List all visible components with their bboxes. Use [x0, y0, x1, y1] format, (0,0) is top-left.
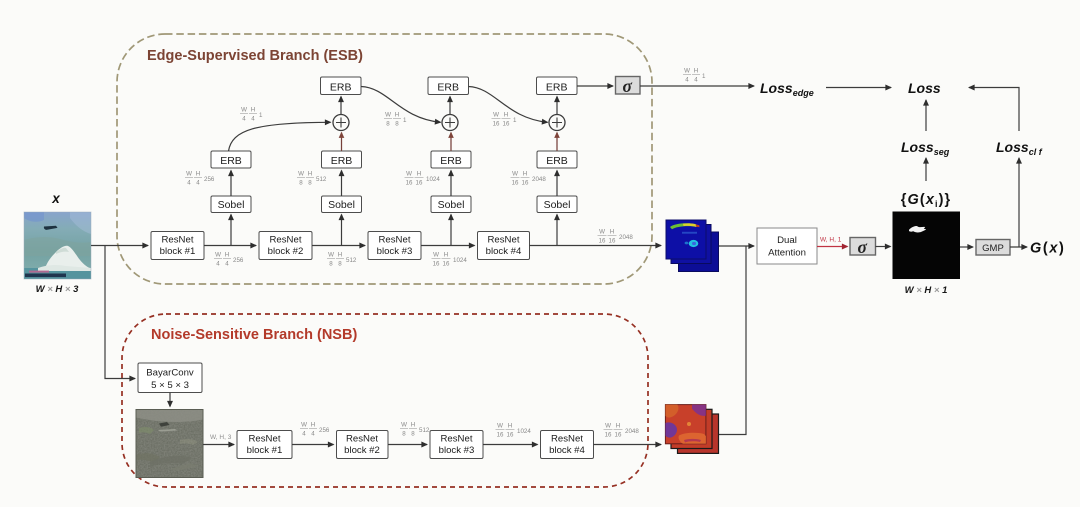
NSB container dashed box [122, 314, 648, 487]
svg-text:W: W [599, 229, 605, 236]
svg-text:block #1: block #1 [247, 445, 283, 456]
svg-text:W: W [215, 252, 221, 259]
svg-text:x: x [51, 191, 60, 206]
G(x_i) set label [901, 192, 952, 209]
G(x) label [1030, 241, 1065, 257]
svg-text:Edge-Supervised Branch (ESB): Edge-Supervised Branch (ESB) [147, 48, 363, 64]
svg-text:ERB: ERB [220, 155, 242, 167]
svg-text:ERB: ERB [330, 82, 352, 94]
wire junction col4 up to Sobel4 [556, 215, 558, 246]
svg-text:4: 4 [694, 77, 698, 84]
svg-text:1: 1 [513, 117, 517, 124]
wire junction col1 up to Sobel1 [230, 215, 232, 246]
dim label below main line col3 W/16 H/16 1024 [432, 252, 468, 268]
wire ResNet2 to ResNet3 [312, 245, 365, 247]
svg-text:block #2: block #2 [344, 445, 380, 456]
svg-text:H: H [338, 252, 342, 259]
svg-text:Dual: Dual [777, 235, 797, 246]
wire adder3 up to top ERB3 [556, 97, 558, 115]
Loss_edge label [760, 80, 814, 98]
svg-text:16: 16 [609, 238, 616, 245]
dim label NSB W/8 H/8 512 [400, 422, 430, 438]
noise image [136, 410, 203, 478]
wire mask to GMP [960, 246, 973, 248]
svg-text:8: 8 [411, 431, 415, 438]
svg-text:8: 8 [299, 180, 303, 187]
svg-text:ERB: ERB [546, 82, 568, 94]
svg-text:2048: 2048 [619, 234, 633, 241]
dim label col3 W/16 H/16 1024 [405, 171, 441, 187]
svg-text:W: W [385, 112, 391, 119]
svg-text:W: W [493, 112, 499, 119]
svg-text:block #4: block #4 [549, 445, 585, 456]
wire Sobel1 to ERB1 [230, 171, 232, 197]
wire ResNet4 to blue feature stack [530, 245, 662, 247]
dim label above line after ResNet4 W/16 H/16 2048 [598, 229, 634, 245]
ERB top #1 [321, 77, 362, 95]
svg-text:BayarConv: BayarConv [146, 368, 194, 379]
svg-text:256: 256 [233, 257, 244, 264]
plane in photo [44, 226, 58, 230]
svg-text:4: 4 [196, 180, 200, 187]
svg-text:5 × 5 × 3: 5 × 5 × 3 [151, 380, 189, 391]
svg-text:256: 256 [319, 427, 330, 434]
svg-text:block #4: block #4 [486, 246, 522, 257]
wire noise image to NSB ResNet1 [203, 444, 234, 446]
svg-text:4: 4 [251, 116, 255, 123]
svg-text:W: W [301, 422, 307, 429]
svg-text:H: H [694, 68, 698, 75]
svg-text:Sobel: Sobel [438, 199, 465, 211]
wire sigma1 to Loss_edge [640, 85, 754, 87]
wire input to ResNet block 1 [91, 245, 148, 247]
sigma box 2 [850, 237, 876, 257]
svg-text:4: 4 [242, 116, 246, 123]
svg-text:16: 16 [406, 180, 413, 187]
wire junction col3 up to Sobel3 [450, 215, 452, 246]
ResNet block #1 (NSB) [237, 431, 292, 459]
wire adder2 up to top ERB2 [449, 97, 451, 115]
svg-text:1: 1 [259, 112, 263, 119]
wire Sobel2 to ERB2 [341, 171, 343, 197]
ResNet block #3 (ESB) [368, 232, 421, 260]
dim label NSB W/16 H/16 2048 [604, 423, 640, 439]
svg-text:8: 8 [402, 431, 406, 438]
svg-text:block #3: block #3 [377, 246, 413, 257]
wire junction col2 up to Sobel2 [341, 215, 343, 246]
svg-text:H: H [308, 171, 312, 178]
ResNet block #2 (ESB) [259, 232, 312, 260]
svg-text:Losscl f: Losscl f [996, 139, 1043, 157]
svg-text:H: H [251, 107, 255, 114]
curve label 3 W/16 H/16 1 [492, 112, 518, 128]
GMP box [976, 240, 1010, 256]
svg-text:4: 4 [311, 431, 315, 438]
red dim label W, H, 1 [820, 237, 842, 244]
svg-text:512: 512 [316, 176, 327, 183]
svg-text:W × H × 1: W × H × 1 [905, 285, 948, 296]
wire Sobel3 to ERB3 [450, 171, 452, 197]
svg-text:16: 16 [605, 432, 612, 439]
wire red ERB3 up to adder2 [450, 133, 452, 152]
svg-text:W: W [433, 252, 439, 259]
svg-text:Sobel: Sobel [544, 199, 571, 211]
svg-text:G(x): G(x) [1030, 241, 1065, 257]
svg-text:8: 8 [386, 121, 390, 128]
svg-text:H: H [444, 252, 448, 259]
Loss_seg label [901, 139, 950, 157]
wire sigma2 to mask [876, 246, 891, 248]
svg-text:4: 4 [685, 77, 689, 84]
svg-text:H: H [311, 422, 315, 429]
svg-text:4: 4 [187, 180, 191, 187]
wire branch down to NSB [105, 246, 135, 379]
ERB top #3 [537, 77, 578, 95]
svg-text:ResNet: ResNet [270, 235, 302, 246]
svg-text:16: 16 [507, 432, 514, 439]
adder circle 3 [549, 115, 565, 131]
ERB #3 lower [431, 151, 471, 168]
Sobel #1 [211, 196, 251, 213]
svg-text:16: 16 [416, 180, 423, 187]
svg-text:W, H, 1: W, H, 1 [820, 237, 842, 244]
wire top ERB3 to sigma1 [577, 85, 613, 87]
svg-text:4: 4 [225, 261, 229, 268]
svg-text:8: 8 [395, 121, 399, 128]
svg-text:Sobel: Sobel [328, 199, 355, 211]
svg-text:W × H × 3: W × H × 3 [36, 284, 80, 295]
dim label col1 W/4 H/4 256 [185, 171, 215, 187]
svg-text:4: 4 [302, 431, 306, 438]
wire ResNet1 to ResNet2 [204, 245, 256, 247]
svg-text:H: H [610, 229, 614, 236]
dim label below main line col1 W/4 H/4 256 [214, 252, 244, 268]
ERB #1 lower [211, 151, 251, 168]
dim label col2 W/8 H/8 512 [297, 171, 327, 187]
svg-text:H: H [395, 112, 399, 119]
wire red ERB4 up to adder3 [556, 133, 558, 152]
wire G(x) junction up to Loss_clf [1018, 158, 1020, 247]
svg-text:16: 16 [522, 180, 529, 187]
svg-text:H: H [616, 423, 620, 430]
svg-text:W: W [401, 422, 407, 429]
svg-text:ResNet: ResNet [441, 434, 473, 445]
svg-text:H: H [504, 112, 508, 119]
dim label col4 W/16 H/16 2048 [511, 171, 547, 187]
adder circle 2 [442, 115, 458, 131]
svg-text:16: 16 [512, 180, 519, 187]
svg-text:Attention: Attention [768, 248, 806, 259]
svg-text:ERB: ERB [440, 155, 462, 167]
ResNet block #2 (NSB) [337, 431, 389, 459]
predicted mask image (black) [893, 212, 961, 280]
mask size label W x H x 1 [905, 285, 948, 296]
dim label after sigma1 W/4 H/4 1 [683, 68, 706, 84]
svg-text:16: 16 [493, 121, 500, 128]
dim label W, H, 3 [210, 434, 232, 441]
ESB title [147, 48, 363, 64]
svg-text:Loss: Loss [908, 80, 941, 96]
NSB title [151, 327, 357, 343]
svg-text:8: 8 [308, 180, 312, 187]
wire BayarConv down to noise image [169, 393, 171, 407]
svg-text:H: H [523, 171, 527, 178]
Loss label [908, 80, 941, 96]
svg-text:ERB: ERB [546, 155, 568, 167]
svg-text:W: W [406, 171, 412, 178]
svg-text:2048: 2048 [625, 428, 639, 435]
wire Loss_clf up and into Loss [969, 88, 1019, 132]
wire NSB ResNet2 to ResNet3 [388, 444, 427, 446]
svg-text:1024: 1024 [426, 176, 440, 183]
wire GMP to G(x) [1010, 246, 1027, 248]
svg-text:block #1: block #1 [160, 246, 196, 257]
svg-text:Sobel: Sobel [218, 199, 245, 211]
svg-text:W, H, 3: W, H, 3 [210, 434, 232, 441]
svg-text:{G(xi)}: {G(xi)} [901, 192, 952, 209]
ResNet block #4 (ESB) [478, 232, 530, 260]
sigma box 1 [616, 76, 641, 96]
svg-text:256: 256 [204, 176, 215, 183]
wire Loss_seg up to Loss [925, 100, 927, 131]
svg-text:H: H [411, 422, 415, 429]
svg-text:1: 1 [403, 117, 407, 124]
wire NSB ResNet1 to ResNet2 [292, 444, 334, 446]
ResNet block #1 (ESB) [151, 232, 204, 260]
curved wire top ERB2 to adder3 [469, 87, 548, 123]
svg-text:H: H [508, 423, 512, 430]
svg-text:W: W [186, 171, 192, 178]
wire red ERB2 up to adder1 [341, 133, 343, 152]
adder circle 1 [333, 115, 349, 131]
svg-text:H: H [225, 252, 229, 259]
svg-text:W: W [605, 423, 611, 430]
input image size label W x H x 3 [36, 284, 80, 295]
blue feature stack (ESB output) [666, 220, 719, 272]
node x label [51, 191, 60, 206]
ERB #2 lower [322, 151, 362, 168]
svg-text:16: 16 [599, 238, 606, 245]
wire Sobel4 to ERB4 [556, 171, 558, 197]
svg-text:1: 1 [702, 73, 706, 80]
svg-text:H: H [196, 171, 200, 178]
svg-text:ResNet: ResNet [249, 434, 281, 445]
Sobel #2 [322, 196, 362, 213]
svg-text:16: 16 [503, 121, 510, 128]
svg-text:16: 16 [443, 261, 450, 268]
svg-text:2048: 2048 [532, 176, 546, 183]
ESB container dashed box [117, 34, 652, 284]
svg-text:W: W [684, 68, 690, 75]
svg-text:16: 16 [497, 432, 504, 439]
wire adder1 up to top ERB1 [340, 97, 342, 115]
wire NSB ResNet4 to red stack [594, 444, 662, 446]
svg-text:W: W [497, 423, 503, 430]
Sobel #3 [431, 196, 471, 213]
svg-text:16: 16 [433, 261, 440, 268]
ERB top #2 [428, 77, 469, 95]
svg-text:ResNet: ResNet [488, 235, 520, 246]
svg-text:Lossseg: Lossseg [901, 139, 950, 157]
Loss_clf label [996, 139, 1043, 157]
svg-text:GMP: GMP [982, 243, 1004, 254]
svg-text:W: W [328, 252, 334, 259]
iceberg [44, 246, 91, 277]
svg-text:ResNet: ResNet [346, 434, 378, 445]
ERB #4 lower [537, 151, 577, 168]
Sobel #4 [537, 196, 577, 213]
svg-text:1024: 1024 [453, 257, 467, 264]
svg-text:512: 512 [419, 427, 430, 434]
dim label below main line col2 W/8 H/8 512 [327, 252, 357, 268]
wire Loss_edge to Loss [826, 87, 891, 89]
red wire Dual Attention to sigma2 [817, 246, 848, 248]
svg-text:block #2: block #2 [268, 246, 304, 257]
input image x [24, 212, 91, 279]
sea strip [24, 268, 91, 279]
wire NSB ResNet3 to ResNet4 [483, 444, 538, 446]
wire G(xi) up to Loss_seg [925, 158, 927, 181]
svg-text:Lossedge: Lossedge [760, 80, 814, 98]
wire ResNet3 to ResNet4 [421, 245, 475, 247]
svg-text:ERB: ERB [437, 82, 459, 94]
svg-text:σ: σ [622, 76, 632, 96]
curved wire top ERB1 to adder2 [361, 87, 441, 123]
svg-text:512: 512 [346, 257, 357, 264]
svg-text:ResNet: ResNet [551, 434, 583, 445]
curve label 2 W/8 H/8 1 [384, 112, 407, 128]
svg-text:W: W [241, 107, 247, 114]
svg-text:8: 8 [338, 261, 342, 268]
svg-text:block #3: block #3 [439, 445, 475, 456]
BayarConv box [138, 363, 202, 393]
dim label NSB W/4 H/4 256 [300, 422, 330, 438]
wire blue stack to Dual Attention [719, 245, 754, 247]
svg-text:16: 16 [615, 432, 622, 439]
dim label NSB W/16 H/16 1024 [496, 423, 532, 439]
svg-text:ResNet: ResNet [162, 235, 194, 246]
svg-text:8: 8 [329, 261, 333, 268]
curve label 1 W/4 H/4 1 [240, 107, 263, 123]
ResNet block #3 (NSB) [430, 431, 483, 459]
svg-text:σ: σ [857, 237, 867, 257]
svg-text:Noise-Sensitive Branch (NSB): Noise-Sensitive Branch (NSB) [151, 327, 357, 343]
svg-text:W: W [512, 171, 518, 178]
curved wire ERB1 lower to adder1 [229, 122, 331, 151]
svg-text:4: 4 [216, 261, 220, 268]
red feature stack (NSB output) [665, 405, 718, 454]
ResNet block #4 (NSB) [541, 431, 594, 459]
svg-text:ERB: ERB [331, 155, 353, 167]
svg-text:W: W [298, 171, 304, 178]
svg-text:H: H [417, 171, 421, 178]
wire junction down to NSB output (vertical at x=746) [719, 246, 746, 435]
Dual Attention box [757, 228, 817, 264]
svg-text:1024: 1024 [517, 428, 531, 435]
svg-text:ResNet: ResNet [379, 235, 411, 246]
